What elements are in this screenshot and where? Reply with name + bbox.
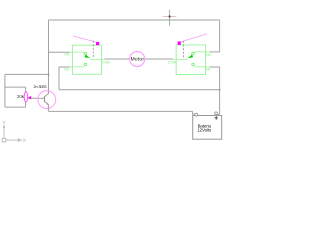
wire to relay K1 NO [49, 51, 71, 53]
wire battery minus jog [193, 111, 195, 114]
wire left vertical (collector branch) [48, 20, 50, 94]
relay K1 NC stub [70, 66, 84, 68]
resistor R1 body [24, 92, 27, 102]
relay K2 wiper arrow [188, 55, 194, 59]
svg-text:NC: NC [64, 68, 69, 72]
svg-text:COM: COM [102, 61, 110, 65]
relay K1 mechanical link dashed [92, 41, 94, 58]
node handle crosshair on top bus [163, 10, 177, 26]
relay K2 mechanical link dashed [183, 41, 185, 58]
svg-text:20k: 20k [17, 94, 25, 99]
relay K2 NO contact [192, 52, 195, 55]
relay K1 wiper arrow [85, 55, 91, 59]
wire relay K1 NC [59, 66, 70, 68]
relay K1 NO stub [70, 51, 84, 53]
transistor Q1 circle [38, 91, 56, 109]
axes origin icon [2, 127, 21, 141]
wire top bus [49, 19, 220, 21]
relay K1 box [73, 45, 102, 74]
relay K2 NC stub [194, 66, 209, 68]
wire loop right vertical through resistor [25, 87, 27, 107]
relay K1 COM stub [90, 58, 105, 60]
wire loop bottom [5, 106, 26, 108]
svg-text:2n 3055: 2n 3055 [34, 85, 47, 89]
svg-text:NO: NO [206, 53, 211, 57]
relay K2 COM stub [173, 58, 188, 60]
relay K2 box [176, 45, 205, 75]
relay K1 coil wire [73, 36, 97, 42]
wire right vertical upper [219, 20, 221, 52]
battery plus terminal [215, 112, 218, 115]
wire motor left [104, 58, 130, 60]
wire to battery plus [217, 113, 219, 115]
wire right vertical lower [219, 67, 221, 114]
wire elbow relay K2 NC [210, 66, 220, 68]
node junction collector/resistor [48, 74, 50, 76]
wire NC bus horizontal [59, 89, 220, 91]
transistor Q1 emitter lead [45, 102, 49, 112]
node junction right bus [219, 89, 221, 91]
relay K2 coil terminal square [178, 41, 181, 45]
wire resistor top branch [5, 73, 49, 75]
axis X line [6, 139, 18, 141]
battery BT1 box [193, 116, 222, 140]
relay K1 coil terminal square [96, 42, 99, 45]
transistor Q1 collector lead [45, 91, 49, 97]
transistor Q1 emitter arrow [46, 103, 48, 105]
axis Y line [3, 127, 5, 138]
svg-text:12Volts: 12Volts [197, 127, 212, 132]
axis X arrowhead [18, 139, 21, 141]
svg-text:NC: NC [206, 67, 211, 71]
wire base [26, 97, 45, 99]
wire left loop vertical [4, 74, 6, 107]
relay K1 NO contact [84, 52, 87, 55]
origin square [2, 138, 6, 142]
axis Y arrowhead [3, 124, 5, 127]
svg-text:Motor: Motor [131, 57, 145, 63]
motor M1 [130, 52, 145, 67]
transistor Q1 base bar [44, 96, 46, 102]
resistor selection arrow [28, 96, 31, 100]
relay K2 coil wire [180, 34, 207, 42]
svg-text:NO: NO [64, 52, 69, 56]
relay K2 NO stub [194, 51, 209, 53]
wire emitter bottom bus [49, 110, 193, 112]
wire elbow to relay K2 NO [210, 51, 220, 53]
battery minus terminal [195, 113, 198, 116]
relay K1 NC contact [84, 63, 87, 66]
battery plus mark [214, 116, 218, 120]
wire loop middle branch [5, 86, 26, 88]
wire NC vertical [58, 67, 60, 90]
wire motor right [145, 58, 173, 60]
svg-text:COM: COM [168, 61, 176, 65]
relay K2 NC contact [192, 63, 195, 66]
